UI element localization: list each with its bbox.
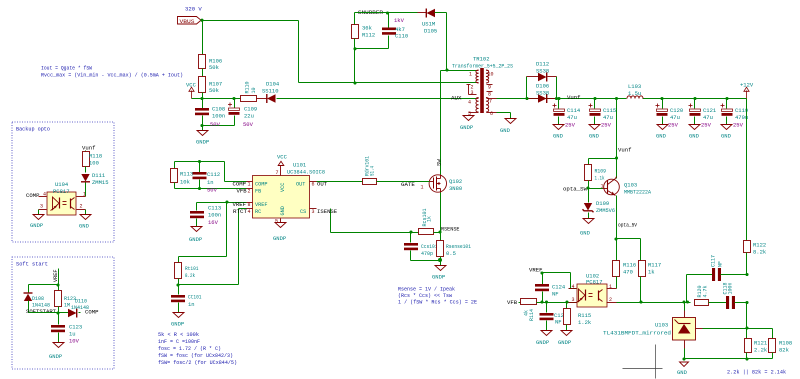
svg-text:25V: 25V (701, 122, 712, 129)
svg-text:FB: FB (255, 189, 261, 195)
svg-text:TR102: TR102 (473, 56, 490, 63)
wire pin6 to GND (497, 113, 511, 119)
junction opta_SW (586, 186, 589, 189)
diode D106 (497, 83, 557, 104)
svg-text:Q103: Q103 (624, 182, 637, 189)
label COMP pin1 (233, 181, 251, 188)
junction snubber (353, 11, 389, 50)
svg-text:47u: 47u (670, 114, 680, 121)
resistor R108 (769, 339, 793, 359)
wire snubber top (355, 12, 418, 14)
svg-text:R121: R121 (754, 340, 768, 347)
resistor R118 (83, 151, 103, 173)
junction C109 tap (232, 97, 235, 100)
svg-text:1: 1 (421, 185, 424, 191)
svg-text:GATE: GATE (401, 181, 415, 188)
ground GNDP transformer pin5 (460, 116, 474, 132)
ground GNDP C122 (536, 331, 552, 347)
wire base Q103 (589, 184, 604, 190)
svg-text:ZMM15: ZMM15 (92, 179, 109, 186)
svg-text:1.1k: 1.1k (595, 175, 606, 182)
wire COMP net (225, 162, 247, 182)
svg-text:COMP: COMP (85, 309, 99, 316)
svg-text:C108: C108 (212, 106, 225, 113)
junction ISENSE-Ccs (409, 230, 412, 233)
diode D110 (59, 299, 90, 318)
resistor R122 (744, 241, 767, 275)
ground GND D109 (580, 219, 594, 237)
svg-text:RTCT: RTCT (233, 208, 248, 215)
svg-text:1M: 1M (64, 303, 70, 309)
svg-text:SS38: SS38 (536, 68, 549, 75)
svg-text:100: 100 (89, 160, 99, 167)
svg-text:C124: C124 (552, 284, 566, 291)
svg-text:4: 4 (248, 209, 251, 215)
svg-text:8.2k: 8.2k (753, 249, 767, 256)
label COMP soft start (85, 309, 99, 316)
svg-text:2: 2 (80, 204, 83, 210)
svg-text:C115: C115 (603, 107, 616, 114)
svg-text:PC817: PC817 (53, 188, 70, 195)
svg-text:3: 3 (312, 209, 315, 215)
capacitor C118 (723, 282, 747, 309)
transformer TR102 (452, 56, 513, 118)
note parallel resistance (727, 370, 786, 376)
svg-text:COMP: COMP (255, 182, 267, 188)
transistor Q103 (603, 159, 652, 196)
svg-text:L103: L103 (628, 83, 641, 90)
label VREF pin8 (233, 201, 251, 208)
ground GND C119 (721, 125, 732, 140)
svg-text:GND: GND (677, 369, 688, 376)
wire snubber to rail (354, 49, 356, 83)
svg-text:GND: GND (589, 133, 600, 140)
wire VCC node rail (192, 98, 241, 100)
IC U103 TL431 (603, 303, 703, 349)
note Iout formulas (41, 66, 183, 79)
wire VREF to Rt101 (179, 203, 227, 263)
svg-text:100n: 100n (208, 212, 221, 219)
ground GND U104 (79, 215, 91, 230)
capacitor C108 (195, 99, 225, 128)
svg-text:470: 470 (623, 269, 633, 276)
svg-text:Q102: Q102 (449, 178, 462, 185)
svg-text:OUT: OUT (296, 182, 305, 188)
svg-text:SW: SW (435, 159, 442, 166)
label VREF opto (529, 267, 542, 274)
svg-text:1: 1 (469, 72, 472, 78)
note 320 V (185, 6, 202, 13)
wire R106-R107 (202, 69, 204, 77)
svg-text:4k: 4k (523, 310, 529, 316)
svg-text:R113: R113 (180, 171, 193, 178)
capacitor C117 (710, 255, 746, 281)
diode D112 (527, 61, 557, 82)
wire R107 to VCC node (202, 93, 204, 99)
label RTCT pin4 (233, 208, 251, 215)
svg-text:ISENSE: ISENSE (317, 208, 338, 215)
svg-text:10k: 10k (180, 179, 191, 186)
label VREF soft start (53, 269, 59, 285)
wire ISENSE run (331, 209, 411, 233)
svg-text:Rsense = 1V / Ipeak: Rsense = 1V / Ipeak (398, 287, 455, 293)
resistor R113 (171, 162, 194, 189)
resistor Rt101 (175, 263, 200, 280)
wire Vunf branch (616, 99, 618, 159)
label SW (435, 159, 442, 166)
capacitor C122 (540, 303, 568, 331)
wire opto pin2 to gnd (85, 210, 87, 215)
svg-text:4: 4 (468, 100, 471, 106)
label AUX (451, 95, 462, 102)
junction C118 rail (745, 301, 748, 304)
note snubber label SNUBBER (358, 9, 384, 16)
capacitor C109 (203, 99, 258, 128)
wire C117 branch (687, 275, 713, 303)
svg-text:VCC: VCC (186, 82, 197, 89)
label opta_SW (563, 186, 588, 193)
junction C108 gnd (200, 124, 203, 127)
svg-text:NF: NF (552, 291, 559, 298)
svg-text:C114: C114 (567, 107, 581, 114)
junction sense node (438, 230, 441, 233)
svg-text:C113: C113 (208, 205, 221, 212)
svg-text:7: 7 (276, 170, 279, 176)
svg-text:470p: 470p (421, 250, 433, 257)
svg-text:1N4148: 1N4148 (32, 303, 50, 309)
svg-text:25V: 25V (668, 122, 679, 129)
ground GND TL431 (677, 362, 689, 376)
resistor R112 (352, 13, 376, 49)
optocoupler U102 (569, 273, 617, 308)
svg-text:ZMM5V6: ZMM5V6 (596, 207, 615, 214)
svg-text:10: 10 (488, 72, 494, 78)
svg-text:GNDP: GNDP (49, 353, 62, 360)
capacitor C114 (553, 97, 581, 129)
svg-text:1n: 1n (207, 179, 214, 186)
svg-text:TL431BMFDT_mirrored: TL431BMFDT_mirrored (603, 331, 671, 337)
svg-text:D104: D104 (266, 81, 280, 88)
svg-text:CS: CS (300, 209, 306, 215)
label COMP backup (26, 192, 40, 199)
junction C112 bottom (198, 187, 201, 190)
svg-text:C112: C112 (207, 171, 220, 178)
svg-text:47u: 47u (603, 114, 613, 121)
svg-text:47u: 47u (703, 114, 713, 121)
junction anode (682, 357, 685, 360)
zener D111 (81, 172, 109, 197)
wire D112 branch (527, 77, 557, 99)
ground GNDP U101 (273, 219, 286, 243)
resistor R123 (55, 285, 77, 313)
note box Soft start (12, 257, 114, 369)
svg-text:Backup opto: Backup opto (16, 126, 50, 133)
svg-text:1: 1 (83, 192, 86, 198)
svg-text:NF: NF (555, 319, 562, 326)
svg-text:GND: GND (656, 133, 667, 140)
capacitor C112 (193, 162, 221, 194)
resistor R109 (585, 159, 617, 189)
svg-text:9: 9 (488, 85, 491, 91)
svg-text:VREF: VREF (255, 202, 267, 208)
resistor Rdrv101 (317, 156, 417, 185)
svg-text:Ccs101: Ccs101 (421, 243, 438, 250)
ground GND C120 (656, 125, 668, 140)
svg-text:C121: C121 (703, 107, 717, 114)
svg-text:Soft start: Soft start (16, 261, 48, 268)
wire Rt101 to junction (178, 279, 180, 285)
ground GNDP sense (432, 261, 446, 281)
resistor R120 (695, 285, 727, 305)
svg-text:COMP: COMP (26, 192, 40, 199)
junction diode pair (525, 97, 558, 100)
svg-text:GND: GND (689, 133, 700, 140)
wire opto pin3 to gnd (38, 210, 40, 215)
svg-text:NF: NF (717, 261, 723, 267)
label GATE (401, 181, 415, 188)
svg-text:50V: 50V (243, 121, 254, 128)
svg-text:3: 3 (40, 204, 43, 210)
wire D105 to primary (447, 13, 477, 71)
svg-text:RC: RC (255, 209, 261, 215)
global label VBUS (178, 17, 202, 25)
svg-text:R108: R108 (779, 340, 792, 347)
junction primary top (445, 68, 448, 71)
svg-text:3N80: 3N80 (449, 185, 462, 192)
power VCC left (186, 82, 197, 99)
svg-text:+12V: +12V (740, 82, 754, 89)
junction C122 top (545, 300, 548, 303)
svg-text:1: 1 (248, 182, 251, 188)
wire vref to d108 (29, 284, 59, 286)
svg-text:fosc = 1.72 / (R * C): fosc = 1.72 / (R * C) (158, 346, 221, 352)
junction TL431 ref (683, 301, 690, 304)
svg-text:R116: R116 (623, 262, 636, 269)
svg-text:opta_5V: opta_5V (618, 222, 638, 229)
resistor R114 (519, 299, 577, 322)
svg-text:VCC: VCC (280, 183, 286, 192)
junction VCC node (200, 97, 203, 100)
svg-text:GNDP: GNDP (189, 236, 202, 243)
svg-text:D105: D105 (424, 28, 437, 35)
svg-text:D112: D112 (536, 61, 549, 68)
ground GNDP U104 (30, 215, 44, 230)
svg-text:GNDP: GNDP (171, 321, 184, 328)
svg-text:Vunf: Vunf (82, 145, 95, 152)
ground GNDP under C108 (196, 126, 209, 146)
wire softstart rail (29, 312, 59, 314)
svg-text:R114: R114 (529, 309, 535, 321)
svg-text:8: 8 (488, 92, 491, 98)
svg-text:0.5: 0.5 (446, 250, 456, 257)
power +12V (740, 82, 754, 99)
svg-text:GND: GND (500, 127, 511, 134)
svg-text:VFB: VFB (507, 299, 518, 306)
svg-text:Rvcc_max = (Vin_min - Vcc_max): Rvcc_max = (Vin_min - Vcc_max) / (0.5mA … (41, 73, 183, 79)
svg-text:VCC: VCC (277, 154, 288, 161)
note timing formulas (158, 332, 237, 366)
svg-text:COMP: COMP (233, 181, 247, 188)
ground GNDP R115 (558, 331, 572, 347)
label VFB opto (507, 299, 518, 306)
capacitor Ccs101 (404, 233, 441, 261)
capacitor C120 (656, 97, 684, 129)
svg-text:1k: 1k (427, 216, 433, 222)
capacitor C119 (721, 97, 749, 129)
junction softstart top (56, 283, 59, 286)
wire Q102 source to sense (440, 193, 442, 233)
svg-text:PC817: PC817 (586, 279, 603, 286)
svg-text:100n: 100n (727, 282, 733, 294)
ground GNDP C123 (49, 343, 64, 361)
capacitor Ct101 (171, 285, 202, 313)
svg-text:4: 4 (43, 192, 46, 198)
svg-text:6: 6 (490, 111, 493, 117)
svg-text:36k: 36k (362, 25, 373, 32)
svg-text:10V: 10V (69, 338, 80, 345)
wire to R117 (617, 239, 641, 261)
wire SW net vertical (441, 71, 447, 175)
label ISENSE pin3 (312, 208, 338, 215)
svg-text:GNDP: GNDP (460, 124, 473, 131)
junction VREF opto (540, 271, 543, 274)
svg-text:AUX: AUX (451, 95, 462, 102)
svg-text:50V: 50V (210, 121, 221, 128)
IC U101 UC3844 (247, 162, 326, 223)
resistor R110 (241, 81, 257, 101)
diode D104 (262, 81, 280, 104)
capacitor C115 (589, 97, 617, 129)
ground GNDP under C113 (189, 227, 202, 244)
svg-text:1 / (fSW * Rcs * Ccs) = 2E: 1 / (fSW * Rcs * Ccs) = 2E (398, 300, 477, 306)
junction softstart (56, 311, 59, 314)
svg-text:UC3844.SOIC8: UC3844.SOIC8 (287, 169, 325, 175)
svg-text:5k < R < 100k: 5k < R < 100k (158, 332, 199, 338)
svg-text:GND: GND (79, 223, 90, 230)
optocoupler U104 (39, 181, 87, 215)
ground GND C121 (689, 125, 700, 140)
resistor R116 (613, 239, 637, 289)
svg-text:3: 3 (572, 297, 575, 303)
svg-text:D106: D106 (536, 83, 549, 90)
svg-text:D109: D109 (596, 200, 609, 207)
label Vunf secondary (567, 94, 580, 101)
svg-text:25V: 25V (601, 122, 612, 129)
junction VREF (225, 200, 228, 203)
svg-text:US1M: US1M (422, 21, 435, 28)
svg-text:1: 1 (609, 284, 612, 290)
capacitor C113 (190, 203, 221, 227)
svg-text:OUT: OUT (317, 181, 328, 188)
capacitor C110 (355, 13, 409, 49)
junction R115 top (565, 300, 568, 303)
svg-text:GNDP: GNDP (432, 274, 445, 281)
junction C124 bottom (540, 300, 543, 303)
svg-text:VBUS: VBUS (180, 19, 195, 25)
svg-text:1.5u: 1.5u (628, 90, 641, 97)
resistor R106 (199, 55, 223, 72)
svg-text:25V: 25V (733, 122, 744, 129)
junction Vunf tap (615, 97, 618, 100)
resistor R121 (745, 329, 768, 359)
ground GNDP under Ct101 (171, 313, 184, 328)
svg-text:4.7k: 4.7k (703, 285, 709, 297)
svg-text:GNDP: GNDP (30, 222, 43, 229)
junction cathode rail (745, 303, 748, 330)
svg-text:R117: R117 (648, 262, 661, 269)
svg-text:SS38: SS38 (536, 90, 549, 97)
svg-text:R118: R118 (89, 153, 102, 160)
svg-text:R115: R115 (578, 312, 591, 319)
svg-text:VREF: VREF (53, 270, 59, 282)
wire TL431 cathode (703, 328, 747, 330)
junction snubber rail (353, 81, 356, 84)
wire gate (417, 182, 430, 191)
diode D105 (418, 9, 447, 35)
svg-text:C120: C120 (670, 107, 683, 114)
junction C112 top (198, 160, 201, 163)
svg-text:2: 2 (609, 297, 612, 303)
svg-text:RSENSE: RSENSE (441, 226, 460, 233)
svg-text:25V: 25V (565, 122, 576, 129)
svg-text:C110: C110 (395, 33, 408, 40)
capacitor C124 (535, 273, 566, 303)
label RSENSE (441, 226, 460, 233)
junction C117 rail (745, 273, 748, 276)
junction Vunf-R109 (615, 156, 618, 159)
label Vunf branch (618, 147, 631, 154)
label SOFTSTART (26, 309, 57, 315)
svg-text:U103: U103 (655, 322, 668, 329)
wire VFB rail (175, 188, 247, 190)
svg-text:47u: 47u (567, 114, 577, 121)
svg-text:100n: 100n (212, 113, 225, 120)
svg-text:2.2k: 2.2k (754, 347, 768, 354)
svg-text:GND: GND (580, 230, 591, 237)
svg-text:6: 6 (312, 182, 315, 188)
power VCC U101 (276, 154, 288, 176)
svg-text:fSW = fosc (for UCx842/3): fSW = fosc (for UCx842/3) (158, 353, 233, 359)
MOSFET Q102 (429, 175, 462, 193)
resistor R117 (639, 261, 662, 303)
svg-text:1kV: 1kV (394, 17, 405, 24)
wire R110 to D104 (257, 98, 267, 100)
svg-text:GND: GND (553, 133, 564, 140)
svg-text:50V: 50V (207, 187, 218, 194)
svg-text:1n: 1n (188, 301, 195, 308)
svg-text:50k: 50k (209, 64, 220, 71)
svg-text:8: 8 (248, 202, 251, 208)
capacitor C123 (51, 313, 82, 345)
junction R121 bottom (745, 357, 748, 360)
svg-text:GNDP: GNDP (536, 339, 549, 346)
svg-text:Ct101: Ct101 (188, 294, 202, 301)
crosshair marker (623, 345, 663, 379)
svg-text:1.2k: 1.2k (578, 319, 592, 326)
diode D108 (24, 285, 51, 313)
wire R108 branch (747, 329, 773, 339)
svg-text:1k: 1k (648, 269, 655, 276)
junction R117 bottom (639, 300, 642, 303)
svg-text:R110: R110 (244, 81, 250, 93)
svg-text:GNDP: GNDP (558, 339, 571, 346)
wire AUX rail (277, 98, 477, 100)
note sense formulas (398, 287, 477, 306)
wire secondary rail (497, 98, 747, 100)
junction sense gnd (438, 258, 442, 262)
zener D109 (583, 189, 616, 219)
svg-text:GNDP: GNDP (273, 235, 286, 242)
